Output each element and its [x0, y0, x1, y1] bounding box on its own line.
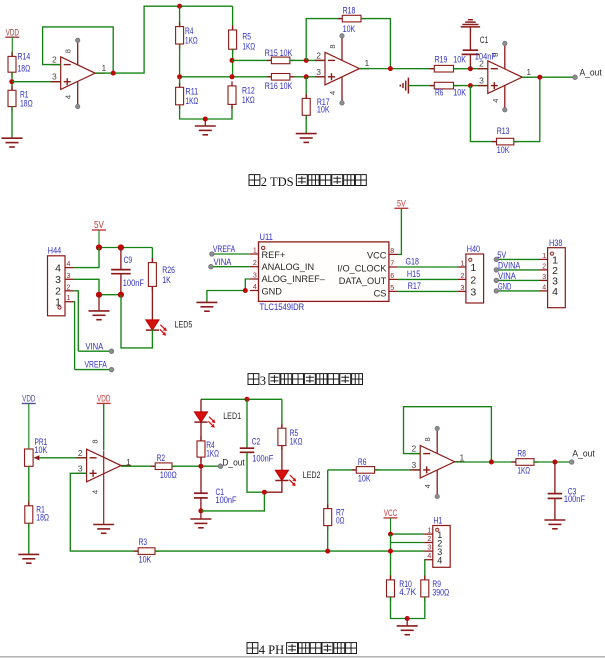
- resistor R3: [134, 537, 160, 564]
- wire: [179, 77, 181, 88]
- svg-text:D_out: D_out: [222, 457, 245, 468]
- svg-text:1KΩ: 1KΩ: [290, 436, 303, 446]
- svg-text:10K: 10K: [453, 88, 466, 98]
- svg-text:C9: C9: [124, 255, 133, 265]
- wire: [391, 597, 425, 619]
- ground: [89, 295, 110, 320]
- svg-text:R8: R8: [517, 449, 526, 459]
- svg-text:H15: H15: [407, 269, 420, 280]
- svg-text:H1: H1: [433, 516, 442, 527]
- wire: [74, 248, 99, 268]
- wire: [398, 208, 402, 254]
- svg-text:10K: 10K: [35, 445, 48, 455]
- svg-text:18Ω: 18Ω: [18, 64, 31, 74]
- svg-text:3: 3: [260, 374, 266, 388]
- wire: [514, 77, 540, 141]
- wire: [454, 68, 488, 70]
- svg-text:1: 1: [542, 253, 546, 260]
- svg-text:4.7K: 4.7K: [399, 587, 416, 597]
- wire: [496, 269, 539, 271]
- svg-text:U11: U11: [260, 232, 273, 243]
- svg-text:R3: R3: [139, 537, 148, 547]
- svg-text:R15 10K: R15 10K: [265, 48, 293, 58]
- svg-text:3: 3: [460, 285, 464, 292]
- svg-text:10K: 10K: [497, 145, 510, 155]
- capacitor C9: [111, 255, 144, 288]
- svg-text:3: 3: [542, 274, 546, 281]
- svg-text:2: 2: [316, 50, 321, 60]
- svg-text:R2: R2: [157, 453, 166, 463]
- wire: [328, 469, 357, 471]
- svg-text:1: 1: [67, 295, 71, 302]
- svg-text:GND: GND: [498, 282, 511, 293]
- svg-text:VCC: VCC: [367, 251, 387, 261]
- svg-text:2: 2: [78, 448, 83, 458]
- wire: [327, 470, 329, 509]
- svg-text:2: 2: [253, 260, 257, 267]
- svg-text:C1: C1: [480, 35, 489, 45]
- resistor R1: [25, 501, 49, 527]
- svg-text:1: 1: [126, 457, 131, 467]
- svg-text:R5: R5: [242, 32, 251, 42]
- wire: [11, 72, 13, 90]
- wire: [200, 457, 202, 493]
- svg-text:3: 3: [67, 273, 71, 280]
- svg-text:100Ω: 100Ω: [160, 470, 177, 480]
- resistor R2: [151, 453, 177, 480]
- wire: [179, 6, 181, 26]
- svg-text:A_out: A_out: [580, 68, 603, 79]
- svg-text:GND: GND: [262, 286, 283, 296]
- wire: [212, 253, 250, 255]
- svg-text:2: 2: [427, 536, 431, 543]
- svg-text:4: 4: [253, 284, 257, 291]
- svg-text:LED2: LED2: [303, 470, 321, 481]
- wire: [180, 104, 232, 119]
- resistor R14: [8, 52, 30, 77]
- wire: [391, 533, 425, 535]
- resistor R4: [197, 436, 219, 461]
- terminal D_out: [218, 464, 223, 469]
- wire: [180, 76, 325, 78]
- node junction: [405, 616, 410, 621]
- wire: [359, 68, 434, 70]
- wire: [155, 550, 424, 552]
- node junction: [230, 58, 235, 63]
- wire: [496, 279, 539, 281]
- node junction: [111, 71, 116, 76]
- svg-text:4: 4: [55, 263, 61, 275]
- svg-text:CS: CS: [374, 288, 387, 298]
- wire: [151, 286, 153, 320]
- svg-text:R6: R6: [358, 457, 367, 467]
- wire: [200, 399, 202, 412]
- wire: [496, 290, 539, 292]
- svg-text:VINA: VINA: [214, 257, 232, 268]
- ground: [544, 520, 565, 529]
- terminal: [494, 268, 499, 273]
- wire: [281, 399, 283, 428]
- node junction: [177, 4, 182, 9]
- node junction: [203, 117, 208, 122]
- ground: [190, 511, 211, 528]
- svg-text:3: 3: [78, 463, 83, 473]
- wire: [391, 542, 425, 544]
- terminal: [494, 257, 499, 262]
- svg-text:3: 3: [427, 545, 431, 552]
- svg-text:H38: H38: [549, 238, 562, 249]
- wire: [207, 279, 250, 302]
- wire: [281, 446, 283, 471]
- svg-text:2: 2: [411, 444, 416, 454]
- svg-text:1KΩ: 1KΩ: [517, 466, 530, 476]
- node junction: [96, 244, 102, 250]
- node junction: [388, 549, 393, 554]
- capacitor C3: [548, 486, 586, 504]
- wire: [534, 461, 572, 463]
- ground: [18, 554, 39, 563]
- resistor R15: [265, 48, 295, 63]
- svg-text:100nF: 100nF: [252, 453, 274, 463]
- connector H44: [48, 246, 74, 316]
- svg-text:100nF: 100nF: [123, 278, 145, 288]
- wire: [398, 290, 458, 292]
- terminal: [494, 289, 499, 294]
- svg-text:5: 5: [390, 285, 394, 292]
- svg-text:4: 4: [437, 556, 442, 566]
- wire: [201, 398, 282, 400]
- wire: [264, 480, 282, 492]
- node junction: [245, 397, 250, 402]
- node junction: [468, 66, 473, 71]
- svg-text:C2: C2: [252, 436, 261, 446]
- svg-text:1KΩ: 1KΩ: [242, 41, 255, 51]
- svg-text:I/O_CLOCK: I/O_CLOCK: [337, 263, 387, 273]
- node junction: [96, 292, 102, 298]
- svg-text:10K: 10K: [358, 474, 371, 484]
- caption fig4: [247, 643, 357, 657]
- node junction: [468, 83, 473, 88]
- svg-text:H40: H40: [467, 244, 480, 255]
- wire: [74, 302, 75, 370]
- wire: [43, 27, 114, 73]
- svg-text:1: 1: [365, 58, 370, 68]
- wire: [28, 523, 30, 554]
- connector H38: [539, 238, 565, 308]
- wire: [361, 19, 390, 69]
- svg-text:LED5: LED5: [175, 320, 193, 331]
- node junction: [198, 508, 203, 513]
- wire: [408, 85, 434, 87]
- wire: [151, 248, 153, 263]
- resistor R6: [430, 82, 466, 97]
- wire: [200, 498, 202, 511]
- node junction: [9, 79, 14, 84]
- op-amp U2B: [315, 34, 370, 106]
- wire: [232, 6, 234, 30]
- svg-text:0Ω: 0Ω: [336, 516, 345, 526]
- wire: [179, 44, 181, 77]
- terminal VINA: [209, 264, 214, 269]
- op-amp U3A: [77, 448, 131, 482]
- svg-text:A_out: A_out: [572, 449, 595, 460]
- connector H1: [424, 516, 450, 568]
- wire: [70, 473, 138, 551]
- node junction: [388, 532, 393, 537]
- svg-text:3: 3: [55, 274, 61, 286]
- svg-text:7: 7: [390, 260, 394, 267]
- svg-text:1: 1: [460, 261, 464, 268]
- svg-text:2: 2: [460, 273, 464, 280]
- svg-text:DVINA: DVINA: [498, 261, 521, 272]
- wire: [103, 451, 105, 525]
- caption fig3: [248, 374, 363, 388]
- svg-text:5V: 5V: [497, 250, 506, 261]
- wire: [306, 19, 342, 61]
- wire: [12, 81, 61, 83]
- resistor R5: [278, 424, 303, 450]
- svg-text:1KΩ: 1KΩ: [242, 95, 255, 105]
- IC U11 TLC1549IDR: [250, 232, 398, 313]
- wire: [121, 295, 152, 348]
- resistor R7: [324, 504, 345, 530]
- wire: [75, 369, 112, 371]
- svg-text:1: 1: [427, 528, 431, 535]
- power 5V: [394, 199, 408, 210]
- node junction: [177, 74, 182, 79]
- power VCC: [384, 508, 398, 534]
- svg-text:6: 6: [390, 273, 394, 280]
- wire: [469, 54, 471, 68]
- resistor R9: [421, 575, 450, 601]
- svg-text:VREFA: VREFA: [213, 244, 236, 255]
- svg-text:1KΩ: 1KΩ: [185, 35, 198, 45]
- wire: [200, 422, 202, 441]
- wire: [99, 294, 121, 296]
- wire: [375, 469, 421, 471]
- svg-text:1: 1: [253, 247, 257, 254]
- terminal VREFA: [210, 252, 215, 257]
- wire: [74, 291, 79, 351]
- LED LED1: [194, 411, 241, 428]
- wire: [211, 266, 250, 268]
- svg-text:4: 4: [423, 484, 432, 488]
- svg-text:R26: R26: [162, 265, 175, 275]
- wire: [470, 86, 496, 142]
- wire: [554, 462, 556, 493]
- node junction: [118, 244, 124, 250]
- ground: [2, 138, 23, 147]
- svg-text:1: 1: [526, 67, 531, 77]
- svg-text:LED1: LED1: [223, 411, 241, 422]
- wire: [290, 59, 325, 61]
- svg-text:100nF: 100nF: [216, 495, 238, 505]
- svg-text:2: 2: [67, 284, 71, 291]
- resistor R16: [265, 74, 295, 91]
- wire: [201, 492, 265, 511]
- svg-text:G18: G18: [406, 257, 419, 268]
- wire: [522, 76, 575, 78]
- wire: [398, 266, 458, 268]
- svg-text:VINA: VINA: [498, 271, 516, 282]
- svg-text:4: 4: [552, 286, 558, 298]
- wire: [454, 85, 488, 87]
- svg-text:3: 3: [52, 72, 57, 82]
- node junction: [489, 460, 494, 465]
- svg-text:2 TDS: 2 TDS: [261, 175, 294, 189]
- resistor R26: [148, 258, 175, 291]
- power VDD: [22, 394, 36, 449]
- svg-text:VINA: VINA: [85, 341, 103, 352]
- power VDD: [5, 27, 19, 56]
- caption fig2: [249, 175, 366, 189]
- svg-text:18Ω: 18Ω: [36, 513, 49, 523]
- resistor R11: [176, 83, 199, 110]
- svg-text:DATA_OUT: DATA_OUT: [339, 276, 387, 286]
- svg-text:1: 1: [102, 63, 107, 73]
- op-amp U3B: [410, 426, 464, 499]
- ground: [397, 619, 418, 635]
- node junction: [304, 58, 309, 63]
- wire: [423, 560, 426, 580]
- wire: [455, 461, 516, 463]
- resistor R12: [228, 81, 255, 109]
- svg-text:8: 8: [328, 44, 337, 48]
- svg-text:ALOG_INREF–: ALOG_INREF–: [262, 274, 326, 284]
- wire: [28, 466, 30, 506]
- svg-text:10K: 10K: [453, 54, 466, 64]
- svg-text:R14: R14: [18, 52, 31, 62]
- svg-text:10K: 10K: [139, 555, 152, 565]
- resistor R8: [511, 449, 538, 476]
- wire: [74, 279, 99, 294]
- wire: [120, 248, 122, 270]
- svg-text:H44: H44: [48, 246, 61, 257]
- svg-text:REF+: REF+: [262, 250, 286, 260]
- connector H40: [457, 244, 483, 303]
- wire: [305, 115, 307, 133]
- ground: [196, 302, 217, 311]
- capacitor C1: [462, 35, 497, 61]
- node junction: [388, 66, 393, 71]
- resistor R1: [8, 86, 33, 111]
- resistor R18: [338, 5, 366, 34]
- terminal VREFA: [109, 367, 114, 372]
- power VDD: [97, 394, 111, 405]
- resistor R5: [229, 26, 256, 54]
- svg-text:10K: 10K: [317, 105, 330, 115]
- resistor R19: [430, 54, 466, 72]
- svg-text:4: 4: [67, 261, 71, 268]
- wire: [78, 350, 111, 352]
- svg-text:4: 4: [64, 95, 73, 99]
- resistor R6: [352, 457, 379, 484]
- svg-text:1KΩ: 1KΩ: [206, 448, 219, 458]
- svg-text:8: 8: [390, 248, 394, 255]
- node junction: [262, 490, 267, 495]
- resistor R4: [176, 22, 198, 48]
- ground: [195, 119, 216, 135]
- svg-text:8: 8: [423, 437, 432, 441]
- svg-text:R17: R17: [408, 281, 421, 292]
- svg-text:4: 4: [427, 553, 431, 560]
- wire: [232, 49, 234, 77]
- svg-text:4: 4: [90, 490, 99, 494]
- svg-text:TLC1549IDR: TLC1549IDR: [260, 302, 305, 313]
- terminal A_out: [573, 75, 578, 80]
- node junction: [118, 292, 124, 298]
- svg-text:100nF: 100nF: [564, 494, 586, 504]
- svg-text:R16 10K: R16 10K: [265, 81, 293, 91]
- LED LED2: [275, 470, 320, 486]
- svg-text:4: 4: [328, 91, 337, 95]
- svg-text:1: 1: [460, 452, 465, 462]
- svg-text:390Ω: 390Ω: [432, 587, 449, 597]
- ground: [400, 78, 408, 94]
- terminal VINA: [109, 349, 114, 354]
- svg-text:2: 2: [542, 263, 546, 270]
- wire: [390, 534, 392, 580]
- svg-text:18Ω: 18Ω: [20, 98, 33, 108]
- power 5V: [92, 219, 106, 247]
- wire: [247, 452, 264, 492]
- svg-text:3: 3: [411, 460, 416, 470]
- svg-text:1KΩ: 1KΩ: [186, 96, 199, 106]
- svg-text:8: 8: [64, 49, 73, 53]
- node junction: [537, 75, 542, 80]
- wire: [103, 403, 105, 450]
- svg-text:8: 8: [491, 53, 500, 57]
- node junction: [243, 288, 248, 293]
- svg-text:ANALOG_IN: ANALOG_IN: [262, 262, 315, 272]
- svg-text:3: 3: [470, 286, 476, 298]
- node junction: [304, 74, 309, 79]
- terminal: [494, 278, 499, 283]
- capacitor C2: [240, 436, 274, 463]
- svg-text:1: 1: [470, 262, 476, 274]
- ground: [93, 525, 114, 534]
- wire: [39, 457, 87, 459]
- svg-text:1K: 1K: [162, 275, 171, 285]
- wire: [121, 465, 155, 467]
- wire: [496, 258, 539, 260]
- svg-text:3: 3: [253, 272, 257, 279]
- node junction: [230, 74, 235, 79]
- resistor R10: [387, 575, 417, 601]
- wire: [11, 107, 13, 139]
- node junction: [198, 464, 203, 469]
- svg-text:3: 3: [316, 67, 321, 77]
- op-amp U2C: [478, 41, 532, 112]
- terminal A_out: [569, 460, 574, 465]
- wire: [246, 399, 248, 448]
- svg-text:2: 2: [470, 274, 476, 286]
- wire: [120, 274, 122, 295]
- potentiometer PR1: [25, 437, 48, 467]
- svg-text:3: 3: [479, 76, 484, 86]
- svg-text:2: 2: [479, 59, 484, 69]
- op-amp U2A: [51, 38, 107, 109]
- svg-text:4 PH: 4 PH: [259, 643, 284, 657]
- svg-text:R19: R19: [435, 54, 448, 64]
- node junction: [552, 460, 557, 465]
- LED LED5: [146, 320, 193, 336]
- capacitor C1: [194, 487, 237, 505]
- resistor R17: [302, 94, 329, 120]
- svg-text:R18: R18: [343, 5, 356, 15]
- wire: [172, 465, 221, 467]
- wire: [95, 6, 233, 73]
